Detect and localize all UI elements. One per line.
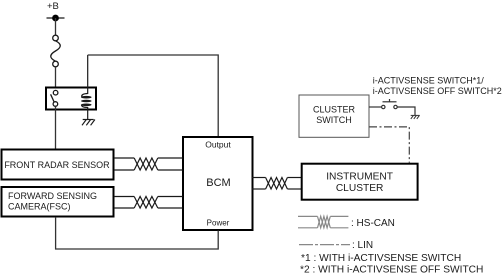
relay switch contacts — [51, 90, 58, 106]
svg-text:INSTRUMENT: INSTRUMENT — [326, 172, 393, 183]
pushbutton switch SW — [369, 99, 415, 115]
FRONT RADAR SENSOR box — [2, 150, 114, 180]
svg-text:SWITCH: SWITCH — [316, 115, 352, 125]
svg-text:*1 : WITH i-ACTIVSENSE SWITCH: *1 : WITH i-ACTIVSENSE SWITCH — [301, 253, 461, 264]
svg-text:FORWARD SENSING: FORWARD SENSING — [8, 191, 97, 201]
svg-text:: HS-CAN: : HS-CAN — [351, 218, 395, 229]
svg-text:*2 : WITH i-ACTIVSENSE OFF SWI: *2 : WITH i-ACTIVSENSE OFF SWITCH — [300, 265, 483, 276]
wire BCM power to camera (bottom run) — [56, 217, 219, 249]
legend HS-CAN symbol — [298, 216, 348, 227]
INSTRUMENT CLUSTER box — [302, 164, 418, 200]
relay box — [46, 88, 96, 110]
ground (relay coil) — [82, 120, 95, 126]
legend LIN symbol — [299, 244, 350, 246]
svg-text:CLUSTER: CLUSTER — [313, 105, 356, 115]
svg-text:i-ACTIVSENSE SWITCH*1/: i-ACTIVSENSE SWITCH*1/ — [373, 76, 485, 86]
node +B bus tap — [47, 15, 65, 22]
HS-CAN twisted pair: camera to BCM — [114, 197, 183, 209]
svg-text:CAMERA(FSC): CAMERA(FSC) — [8, 201, 71, 211]
svg-text:: LIN: : LIN — [352, 240, 373, 251]
HS-CAN twisted pair: BCM to instrument cluster — [252, 178, 301, 190]
wire +B to breaker — [55, 18, 57, 35]
relay coil — [81, 55, 92, 120]
ground (pushbutton) — [411, 115, 420, 119]
HS-CAN twisted pair: radar to BCM — [114, 158, 183, 170]
wire relay to BCM (top run) — [88, 55, 219, 137]
svg-text:CLUSTER: CLUSTER — [336, 183, 384, 194]
svg-text:Output: Output — [205, 140, 231, 150]
CLUSTER SWITCH box — [299, 95, 369, 137]
svg-text:i-ACTIVSENSE OFF SWITCH*2: i-ACTIVSENSE OFF SWITCH*2 — [373, 86, 502, 96]
svg-text:+B: +B — [47, 1, 59, 12]
circuit breaker CB — [51, 35, 61, 67]
svg-text:Power: Power — [207, 218, 230, 227]
wire relay switch to front radar sensor — [55, 106, 57, 149]
FORWARD SENSING CAMERA box — [2, 187, 114, 217]
LIN wire cluster switch to instrument cluster — [369, 127, 409, 163]
BCM box — [183, 137, 253, 230]
wire breaker to relay — [55, 67, 57, 87]
svg-text:BCM: BCM — [206, 177, 230, 189]
svg-text:FRONT RADAR SENSOR: FRONT RADAR SENSOR — [4, 160, 110, 170]
